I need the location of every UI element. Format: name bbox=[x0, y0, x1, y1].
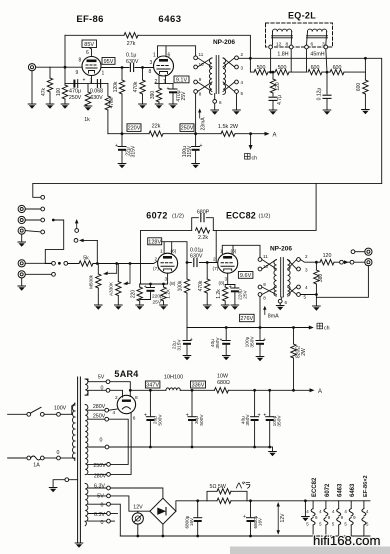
wire: bridge negative to bus bbox=[162, 524, 164, 536]
primary tap 0 bbox=[57, 456, 61, 460]
svg-text:23mA: 23mA bbox=[201, 117, 207, 131]
svg-text:9: 9 bbox=[263, 282, 266, 287]
svg-text:1.2k: 1.2k bbox=[216, 289, 222, 299]
svg-text:630V: 630V bbox=[126, 59, 139, 65]
wire: 6.3V to bridge top bbox=[110, 488, 162, 498]
resistor 220 (6072 cathode) bbox=[139, 284, 141, 287]
pilot lamp bbox=[132, 513, 143, 524]
svg-text:5V: 5V bbox=[98, 374, 105, 380]
svg-text:12V: 12V bbox=[280, 513, 286, 523]
svg-text:6: 6 bbox=[133, 416, 136, 422]
wire: pin 8 riser to B+ rail with 8mA bbox=[259, 296, 261, 327]
arrow A (B+ to output stage) bbox=[251, 133, 266, 135]
svg-text:8: 8 bbox=[199, 92, 202, 97]
selector contacts bbox=[41, 207, 45, 211]
wire: 6463 plates to NP-206 pin 11 bbox=[158, 46, 196, 57]
wire: EF-86 cathode stub bbox=[91, 76, 93, 84]
resistor 22k bbox=[149, 131, 163, 136]
svg-text:680P: 680P bbox=[197, 209, 210, 215]
svg-text:M500k: M500k bbox=[88, 274, 93, 288]
wires: jacks 2 to contacts bbox=[25, 263, 51, 274]
svg-text:6: 6 bbox=[219, 100, 222, 105]
svg-text:5: 5 bbox=[366, 522, 369, 527]
wire: pin 5 to ground bbox=[236, 93, 238, 110]
wire: 6072 cathode bbox=[140, 273, 168, 284]
svg-text:A: A bbox=[318, 389, 322, 395]
wire: pin6 riser bbox=[306, 49, 308, 72]
svg-text:EF-86: EF-86 bbox=[76, 14, 103, 25]
ground (M500k) bbox=[95, 305, 103, 310]
selector position arrow bbox=[75, 229, 79, 233]
input RCA jack bbox=[28, 64, 35, 71]
svg-text:9: 9 bbox=[353, 515, 356, 520]
svg-text:2: 2 bbox=[155, 257, 158, 263]
mains switch bbox=[8, 413, 27, 415]
resistor 2.2k bbox=[196, 228, 210, 233]
svg-text:336V: 336V bbox=[192, 383, 205, 389]
capacitor 22u 315V (mid rail) bbox=[186, 328, 188, 341]
ground (600 shunt) bbox=[362, 110, 370, 115]
wire: EF-86 plate to 6463 grid bbox=[101, 67, 154, 69]
upper output contact and jack bbox=[351, 250, 355, 254]
capacitor 22u 315V bbox=[121, 134, 123, 147]
wires: jacks to selector contacts bbox=[25, 209, 41, 232]
capacitor 100u 315V bbox=[195, 134, 197, 147]
secondary winding heaters bbox=[85, 484, 88, 526]
wire: heater supply bus bbox=[247, 500, 370, 502]
svg-text:6.3V: 6.3V bbox=[94, 512, 105, 518]
transformer NP-206 mid: left terminals bbox=[258, 258, 262, 262]
heater 6463 (second) bbox=[344, 501, 356, 536]
ground (100) bbox=[61, 104, 69, 109]
svg-text:500V: 500V bbox=[199, 414, 205, 426]
svg-text:5: 5 bbox=[304, 295, 307, 300]
ground (47k) bbox=[46, 104, 54, 109]
voltage box 85V bbox=[82, 40, 97, 48]
input RCA jacks group 2 bbox=[18, 260, 25, 267]
svg-text:250V: 250V bbox=[93, 463, 106, 469]
svg-text:27k: 27k bbox=[127, 41, 136, 47]
wire: 27k feedback rail bbox=[65, 35, 250, 72]
svg-text:2: 2 bbox=[241, 52, 244, 57]
heater ECC82 bbox=[306, 501, 318, 536]
wire: pin3 riser bbox=[326, 49, 327, 72]
svg-text:9: 9 bbox=[328, 515, 331, 520]
voltage box 347V bbox=[145, 381, 160, 388]
svg-text:120k: 120k bbox=[113, 81, 119, 92]
watermark band bbox=[230, 547, 390, 554]
wire: ECC82 grid riser to NF bus bbox=[215, 230, 217, 262]
svg-text:11: 11 bbox=[199, 52, 204, 57]
pin 6 NP-206 mid bbox=[281, 297, 282, 299]
svg-text:5V: 5V bbox=[97, 494, 104, 500]
tube 6463 bbox=[154, 56, 174, 76]
secondary winding HV bbox=[85, 405, 88, 475]
svg-text:A330K: A330K bbox=[108, 281, 113, 296]
voltage box 220V bbox=[127, 124, 141, 132]
svg-text:6: 6 bbox=[285, 300, 288, 305]
wire: heater return bus bbox=[120, 535, 370, 537]
svg-text:12V: 12V bbox=[133, 505, 143, 511]
svg-text:2: 2 bbox=[155, 79, 158, 85]
svg-text:630V: 630V bbox=[90, 95, 103, 101]
wire: 5V to pilot circuit bbox=[110, 496, 149, 511]
svg-text:3: 3 bbox=[241, 66, 244, 71]
resistor 500 (second) bbox=[275, 69, 289, 74]
svg-text:16V: 16V bbox=[258, 517, 263, 526]
svg-text:2.2k: 2.2k bbox=[198, 235, 208, 241]
svg-text:+: + bbox=[115, 143, 118, 149]
svg-text:+: + bbox=[144, 413, 147, 419]
svg-text:0: 0 bbox=[101, 503, 104, 509]
wire: input to grid bbox=[36, 66, 83, 68]
pin 6 of NP-206 top bbox=[214, 94, 216, 100]
12V dimension arrow bbox=[277, 505, 279, 533]
svg-text:250V: 250V bbox=[93, 414, 106, 420]
capacitor 0.1u 630V coupling bbox=[130, 64, 133, 72]
svg-text:ch: ch bbox=[252, 156, 258, 162]
svg-text:500: 500 bbox=[257, 65, 266, 71]
svg-text:100: 100 bbox=[56, 88, 62, 97]
wire: 6072 plate bus bbox=[162, 242, 187, 263]
ground (220u ECC82) bbox=[231, 305, 239, 310]
svg-text:0.01μ: 0.01μ bbox=[190, 247, 203, 253]
transformer NP-206 top: right terminals bbox=[235, 56, 239, 60]
svg-text:0.1μ: 0.1μ bbox=[126, 53, 136, 59]
capacitor 220u 25V (6072) bbox=[149, 283, 152, 286]
wire: pin8 riser bbox=[290, 49, 292, 72]
svg-text:+: + bbox=[167, 86, 170, 92]
resistor 1.2k (6072 cathode) bbox=[162, 283, 165, 286]
svg-text:3: 3 bbox=[305, 268, 308, 273]
capacitor 20u 500V bbox=[149, 390, 151, 416]
svg-text:5: 5 bbox=[344, 522, 347, 527]
wire: 280V top to pin 4 bbox=[109, 409, 118, 410]
resistor 380 (output shunt) bbox=[315, 262, 317, 270]
wire: feedback drop to cathode bbox=[64, 35, 66, 85]
voltage box 276V bbox=[240, 314, 255, 321]
bridge rectifier bbox=[150, 498, 176, 524]
svg-text:630V: 630V bbox=[190, 254, 203, 260]
svg-text:4.7μ: 4.7μ bbox=[277, 95, 283, 105]
wire: 6463 cathode bus bbox=[155, 75, 173, 83]
ground (pin 5) bbox=[233, 110, 241, 115]
svg-text:10W: 10W bbox=[217, 373, 228, 379]
node: junction rail/pin2 line bbox=[249, 57, 252, 60]
svg-text:3: 3 bbox=[165, 277, 168, 283]
ground (A330K) bbox=[115, 305, 123, 310]
svg-text:6072: 6072 bbox=[146, 211, 168, 221]
svg-text:2W: 2W bbox=[301, 348, 307, 356]
svg-text:220: 220 bbox=[130, 290, 136, 299]
svg-text:500: 500 bbox=[278, 65, 287, 71]
svg-text:ECC82: ECC82 bbox=[226, 211, 256, 221]
svg-text:(7): (7) bbox=[213, 266, 219, 272]
ground (output common) bbox=[313, 306, 321, 311]
capacitor 220u 25V (ECC82) bbox=[234, 285, 236, 288]
svg-text:347V: 347V bbox=[146, 383, 159, 389]
svg-text:0: 0 bbox=[101, 385, 104, 391]
svg-text:8mA: 8mA bbox=[268, 314, 279, 320]
svg-text:120: 120 bbox=[323, 253, 332, 259]
resistor 1k bbox=[87, 84, 89, 92]
svg-text:9: 9 bbox=[315, 515, 318, 520]
wire: screen stub bbox=[91, 49, 93, 57]
svg-text:4: 4 bbox=[344, 509, 347, 514]
voltage box 9.1V bbox=[174, 76, 189, 83]
svg-text:85V: 85V bbox=[84, 42, 94, 48]
svg-text:4: 4 bbox=[306, 509, 309, 514]
svg-text:2: 2 bbox=[213, 257, 216, 263]
svg-text:280V: 280V bbox=[94, 474, 107, 480]
capacitor 0.068 630V bbox=[97, 80, 100, 88]
voltage box 9.6V bbox=[238, 272, 253, 279]
ground (100u mid) bbox=[256, 357, 264, 362]
resistor 820ohm 2W bbox=[293, 328, 295, 345]
svg-text:276V: 276V bbox=[240, 316, 253, 322]
tube EF-86 bbox=[82, 57, 101, 76]
svg-text:5k: 5k bbox=[83, 255, 89, 261]
svg-text:+: + bbox=[263, 337, 266, 343]
resistor 1.5k 2W bbox=[221, 131, 235, 136]
wire: ECC82 plate to NP-206 pin 11 bbox=[222, 245, 260, 257]
svg-text:5: 5 bbox=[306, 522, 309, 527]
capacitor 0.12u bbox=[326, 71, 329, 74]
wire: pin 5 to common ground bbox=[300, 294, 316, 296]
svg-text:6463: 6463 bbox=[158, 14, 181, 25]
svg-text:EF-86×2: EF-86×2 bbox=[363, 475, 369, 497]
svg-text:+: + bbox=[263, 413, 266, 419]
wire: jacks 2 ground stem bbox=[21, 278, 23, 286]
capacitor 30u 500V bbox=[191, 390, 193, 416]
svg-text:4: 4 bbox=[305, 285, 308, 290]
ground (22u mid) bbox=[183, 356, 191, 361]
wire: output line bbox=[300, 260, 364, 263]
svg-text:1k: 1k bbox=[84, 117, 90, 123]
wire: feedback/rec line bbox=[33, 183, 382, 197]
svg-text:+: + bbox=[144, 285, 147, 291]
svg-text:470μ: 470μ bbox=[69, 89, 81, 95]
svg-text:0: 0 bbox=[101, 520, 104, 526]
svg-text:+: + bbox=[200, 143, 203, 149]
primary tap 100V bbox=[57, 412, 61, 416]
svg-text:+: + bbox=[229, 285, 232, 291]
resistor 600 (vertical shunt) bbox=[364, 58, 366, 109]
wire: selector wiper to volume bus bbox=[45, 220, 63, 264]
svg-text:315V: 315V bbox=[131, 145, 137, 157]
svg-text:8: 8 bbox=[79, 58, 82, 64]
monitor loop contact bbox=[74, 239, 78, 243]
svg-text:1.5k 2W: 1.5k 2W bbox=[218, 124, 239, 130]
wire: pin 8 riser to B+ rail, 23mA bbox=[195, 93, 197, 133]
ground (470k ECC82) bbox=[203, 305, 211, 310]
svg-text:315V: 315V bbox=[176, 339, 182, 351]
capacitor 0.01u 630V bbox=[187, 262, 216, 264]
output contacts bbox=[340, 260, 344, 264]
svg-text:+: + bbox=[186, 413, 189, 419]
svg-text:8: 8 bbox=[263, 296, 266, 301]
svg-text:9.6V: 9.6V bbox=[240, 273, 252, 279]
wire: 5V tap to pin 8 and B+ rail start bbox=[110, 382, 130, 398]
svg-text:+: + bbox=[83, 78, 86, 84]
primary winding bbox=[72, 405, 74, 459]
svg-text:(8): (8) bbox=[170, 281, 176, 287]
capacitor 680P bbox=[192, 218, 214, 231]
resistor 600 (third) bbox=[308, 69, 322, 74]
svg-text:NP-206: NP-206 bbox=[270, 246, 292, 253]
wires: NP-206 mid crossing connections bbox=[262, 260, 297, 295]
svg-text:47k: 47k bbox=[41, 87, 47, 96]
svg-text:600: 600 bbox=[311, 65, 320, 71]
svg-text:6463: 6463 bbox=[338, 483, 344, 497]
svg-text:(1/2): (1/2) bbox=[172, 214, 184, 220]
svg-text:350V: 350V bbox=[277, 415, 283, 427]
svg-text:11: 11 bbox=[263, 254, 268, 259]
voltage box 128V bbox=[148, 238, 162, 245]
ground (jacks 2) bbox=[18, 286, 26, 291]
resistor 120 (shunt) bbox=[272, 71, 275, 74]
wire: B+ rail after rectifier bbox=[130, 389, 309, 391]
wire: ECC82 cathode bbox=[225, 273, 235, 284]
ground (chassis earth) bbox=[49, 488, 57, 493]
potentiometer A330K bbox=[117, 264, 119, 282]
wire: NP-206 pin 2 output line to right edge bbox=[238, 58, 381, 183]
RCA output jack (main) bbox=[365, 259, 372, 266]
wire: bridge positive to heater bus bbox=[176, 501, 207, 511]
resistor 100 bbox=[62, 85, 67, 99]
wire: 6.3V stub bbox=[110, 513, 117, 515]
ground (4.7u) bbox=[269, 110, 277, 115]
ground (1.2k 6072) bbox=[160, 305, 168, 310]
svg-text:6.3V: 6.3V bbox=[94, 483, 105, 489]
resistor 120 (output) bbox=[320, 260, 334, 265]
svg-text:1: 1 bbox=[153, 53, 156, 59]
arrow to other channel (mid) bbox=[309, 326, 314, 330]
svg-text:+: + bbox=[243, 514, 246, 520]
tube 5AR4 bbox=[117, 395, 135, 413]
wire: EF-86 cathode bus bbox=[65, 83, 108, 85]
capacitor 6800u 16V (first) bbox=[197, 501, 199, 517]
svg-text:250V: 250V bbox=[69, 95, 82, 101]
svg-text:120: 120 bbox=[275, 82, 281, 91]
resistors 5ohm 5W parallel pair bbox=[207, 491, 247, 501]
svg-text:128V: 128V bbox=[148, 239, 161, 245]
svg-text:600: 600 bbox=[356, 83, 362, 92]
svg-text:5Ω 5W: 5Ω 5W bbox=[210, 484, 226, 490]
taps 5V winding bbox=[106, 380, 110, 384]
svg-text:4: 4 bbox=[241, 80, 244, 85]
svg-text:6: 6 bbox=[86, 50, 89, 56]
svg-text:0: 0 bbox=[100, 437, 103, 443]
wire: jack ground stem bbox=[31, 71, 33, 104]
svg-text:+: + bbox=[258, 413, 261, 419]
ground (0.12u) bbox=[323, 110, 331, 115]
inductor 1.8H bbox=[272, 29, 293, 45]
svg-text:5: 5 bbox=[332, 522, 335, 527]
capacitor 40u 350V (mid rail) bbox=[225, 328, 227, 341]
svg-text:25V: 25V bbox=[181, 91, 187, 101]
svg-text:9: 9 bbox=[76, 70, 79, 76]
svg-text:ch: ch bbox=[324, 325, 330, 331]
wiper A330K bbox=[129, 262, 132, 265]
svg-text:390: 390 bbox=[150, 91, 156, 100]
earth terminal bbox=[65, 478, 69, 482]
wire: NF network bus bbox=[141, 183, 317, 284]
svg-text:95V: 95V bbox=[104, 59, 114, 65]
svg-text:25V: 25V bbox=[242, 289, 248, 298]
svg-text:600: 600 bbox=[333, 65, 342, 71]
ground (100u) bbox=[192, 164, 200, 169]
svg-text:10H100: 10H100 bbox=[164, 375, 183, 381]
svg-text:6: 6 bbox=[311, 41, 314, 47]
input RCA jacks group 1 bbox=[18, 205, 25, 212]
resistor 500 (first) bbox=[254, 69, 268, 74]
svg-text:5: 5 bbox=[241, 91, 244, 96]
ground (pin 6) bbox=[211, 110, 219, 115]
transformer NP-206 top: left terminals bbox=[194, 56, 198, 60]
heater EF-86 x2 bbox=[362, 501, 369, 536]
svg-text:2: 2 bbox=[305, 254, 308, 259]
svg-text:4: 4 bbox=[332, 509, 335, 514]
terminal (rec selector) bbox=[41, 195, 45, 199]
wire: 0 tap to return bus bbox=[110, 504, 120, 536]
svg-text:100k: 100k bbox=[177, 280, 183, 291]
resistor 680 10W bbox=[214, 388, 228, 393]
svg-text:8: 8 bbox=[135, 395, 138, 401]
svg-text:6463: 6463 bbox=[350, 483, 356, 497]
arrow A (B+ distribution) bbox=[310, 388, 315, 392]
ground (1.2k ECC82) bbox=[221, 305, 229, 310]
svg-text:500V: 500V bbox=[157, 414, 163, 426]
resistor 390 (cathode) bbox=[158, 84, 160, 88]
svg-text:5: 5 bbox=[319, 522, 322, 527]
tube 6072 bbox=[158, 253, 178, 273]
secondary winding 5V bbox=[85, 379, 88, 395]
svg-text:1: 1 bbox=[102, 71, 105, 77]
svg-text:ECC82: ECC82 bbox=[312, 477, 318, 497]
svg-text:5AR4: 5AR4 bbox=[114, 369, 138, 379]
transformer NP-206 mid: right terminals bbox=[297, 258, 301, 262]
ground (input jack) bbox=[28, 104, 36, 109]
resistor 1.2k (ECC82) bbox=[224, 285, 226, 288]
wire: EQ ladder bbox=[250, 71, 365, 73]
resistor 470k (6463 grid) bbox=[142, 68, 144, 105]
svg-text:4: 4 bbox=[113, 410, 116, 416]
voltage box 250V bbox=[180, 124, 194, 132]
wire: 0 stub bbox=[110, 520, 114, 522]
svg-text:A: A bbox=[273, 132, 277, 138]
svg-text:1.2k: 1.2k bbox=[165, 289, 171, 299]
svg-text:3: 3 bbox=[225, 277, 228, 283]
ground (40u mid) bbox=[222, 356, 230, 361]
svg-text:22k: 22k bbox=[152, 123, 161, 129]
svg-text:470k: 470k bbox=[198, 280, 204, 291]
wire: 280V bottom to pin 6 bbox=[110, 413, 131, 474]
svg-text:6072: 6072 bbox=[325, 483, 331, 497]
svg-text:hifi168.com: hifi168.com bbox=[313, 533, 380, 548]
resistor 47k bbox=[49, 67, 51, 104]
wire: 250V taps link bbox=[109, 419, 129, 464]
svg-text:+: + bbox=[190, 337, 193, 343]
ground (transformer core) bbox=[75, 543, 83, 548]
ground (390) bbox=[155, 104, 163, 109]
svg-text:(7): (7) bbox=[153, 266, 159, 272]
choke 10H100 bbox=[166, 388, 180, 390]
svg-text:100V: 100V bbox=[54, 405, 67, 411]
svg-text:1.8H: 1.8H bbox=[277, 51, 288, 57]
wires: NP-206 top crossing connections bbox=[198, 58, 235, 92]
wiper M500k bbox=[115, 262, 118, 265]
